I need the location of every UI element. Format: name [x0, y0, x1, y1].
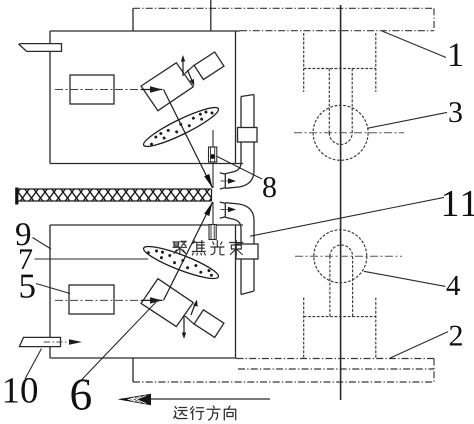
axis stub at top [210, 0, 212, 31]
upper suction pipe (8 assembly) [220, 95, 254, 190]
upper oscillation arrow up [181, 55, 185, 76]
top rail 1: dashed outline [133, 8, 434, 30]
upper focusing lens (ellipse with dots) [140, 102, 221, 152]
label 10 [5, 349, 42, 403]
optical axis vertical line (lower) [212, 202, 214, 240]
travel direction caption 运行方向 (hand-drawn strokes) [174, 406, 236, 420]
label 4 [364, 271, 460, 295]
roller 4 fork arc [330, 245, 353, 256]
lower galvo mirror box 6 [141, 279, 193, 327]
roller 4 axle dash-dot line [295, 255, 402, 257]
lower beam arrow into mirror [141, 297, 163, 303]
lower edge-guide blade 10 [19, 337, 60, 346]
upper pipe suction arrow [221, 178, 237, 183]
roller 3 fork arc [329, 133, 352, 144]
char 运 [174, 407, 188, 419]
upper beam arrow into mirror [141, 86, 163, 92]
char 方 [207, 406, 220, 420]
char 聚 [173, 241, 187, 254]
char 焦 [192, 241, 205, 256]
lower oscillation arrow up [191, 300, 198, 315]
bottom rail 2: dashed outline [133, 359, 434, 383]
roller 3 axle dash-dot line [294, 132, 404, 134]
upper motor box [194, 52, 224, 80]
upper housing box (9) [50, 31, 243, 164]
upper oscillation arrow down [188, 70, 195, 86]
blade 10 flow arrow [44, 339, 82, 345]
lower beam line to focus [164, 202, 213, 300]
laser source lower (5) [69, 285, 114, 314]
upper edge-guide blade [19, 44, 62, 52]
upper pinhole box on axis [209, 147, 217, 162]
label 6 [71, 300, 158, 410]
lower oscillation arrow down [182, 315, 186, 339]
lower beam dash-dot into source [55, 299, 141, 301]
travel direction arrow [118, 394, 271, 405]
lower pinhole box on axis [209, 225, 216, 240]
top housing top edge / rail bottom shared line [50, 30, 240, 32]
lower focusing lens 7 (ellipse with dots) [141, 241, 221, 284]
label 7 [20, 249, 148, 269]
label 8 [217, 156, 276, 197]
char 向 [224, 406, 235, 420]
upper beam arrowhead at focus [204, 174, 212, 188]
top rail 1: solid left edge [132, 8, 134, 30]
workpiece plate (crosshatched) [17, 188, 212, 205]
upper beam dash-dot into source [55, 89, 141, 91]
upper beam line to focus [164, 90, 213, 189]
label 1 [382, 31, 462, 66]
optical axis vertical line (upper) [212, 130, 214, 188]
upper pipe collar [238, 128, 258, 143]
top roller bracket (dashed) [304, 33, 376, 133]
label 11 [250, 191, 474, 236]
label 2 [390, 326, 462, 358]
upper galvo mirror box [141, 63, 193, 111]
lower shaft link [185, 316, 195, 325]
bottom rail 2: solid left edge [132, 358, 134, 382]
lower beam arrowhead at focus [204, 202, 212, 216]
char 束 [230, 241, 243, 256]
lower suction pipe (11 assembly) [220, 202, 254, 295]
machine centerline [340, 5, 342, 400]
char 行 [191, 407, 204, 420]
label 3 [367, 102, 462, 128]
label 5 [21, 275, 70, 298]
roller 4 wheel (dashed circle) [314, 230, 367, 283]
laser source upper (5-equivalent top) [70, 75, 114, 104]
bottom roller bracket (dashed) [304, 256, 376, 358]
lower pipe collar [236, 244, 258, 259]
lower housing box [50, 225, 243, 358]
focused beam caption 聚焦光束 (hand-drawn strokes) [173, 241, 243, 256]
lower motor box [194, 310, 224, 338]
upper shaft link [185, 65, 195, 74]
char 光 [211, 241, 224, 255]
lower pipe suction arrow [221, 207, 237, 212]
roller 3 wheel (dashed circle) [313, 105, 368, 160]
workpiece left end cap [15, 188, 18, 205]
label 9 [16, 223, 51, 249]
